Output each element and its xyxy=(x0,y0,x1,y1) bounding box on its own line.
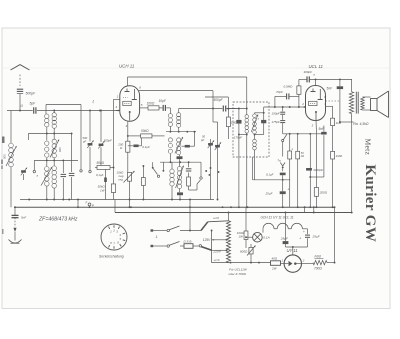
coil L9 osc xyxy=(177,109,181,132)
wire output return xyxy=(351,122,353,213)
coil L16 IF tertiary xyxy=(253,139,257,157)
svg-text:reg.: reg. xyxy=(119,178,124,182)
coil L12 xyxy=(170,162,174,200)
svg-text:7a: 7a xyxy=(277,158,281,162)
plug 7a xyxy=(277,158,285,171)
wire rectifier leads xyxy=(281,263,314,265)
wire mains to bus xyxy=(189,199,191,231)
switch S2 tone xyxy=(282,134,287,157)
resistor R3 200 xyxy=(117,141,130,152)
coil L10 xyxy=(168,138,172,162)
capacitor padder C4 xyxy=(69,133,75,200)
svg-text:2: 2 xyxy=(112,229,115,233)
IF transformer shield box xyxy=(233,102,269,157)
svg-text:1MΩ: 1MΩ xyxy=(336,154,343,158)
mains lead 1 xyxy=(151,226,202,232)
tube UCH11 pin labels xyxy=(116,86,143,128)
capacitor C26 5nF ground xyxy=(12,207,27,220)
svg-text:1W: 1W xyxy=(239,235,244,239)
antenna xyxy=(11,65,30,86)
coil L5 MW secondary xyxy=(50,134,62,161)
svg-text:500pF: 500pF xyxy=(104,138,112,142)
resistor R1 50k xyxy=(95,161,114,170)
lamp pilot 0.1A xyxy=(245,232,270,242)
svg-text:Für UCL11W: Für UCL11W xyxy=(229,267,248,271)
capacitor C27 25uF A xyxy=(280,213,302,248)
capacitor C23 300pF xyxy=(304,70,313,82)
transformer T1 primary xyxy=(349,79,353,122)
svg-text:220V: 220V xyxy=(213,249,222,253)
coil L4 MW primary xyxy=(45,134,49,161)
resistor R13 200 xyxy=(314,188,327,209)
coil L14 IF primary xyxy=(245,102,249,157)
wire mains to transformer top xyxy=(201,221,229,231)
capacitor C18 100pF xyxy=(272,107,286,116)
potentiometer R18 600 hum xyxy=(240,244,256,263)
capacitor C12 block xyxy=(182,132,195,148)
ground symbol xyxy=(9,218,22,244)
capacitor C16 IF primary tuning xyxy=(227,108,248,136)
capacitor C29 IF secondary tuning xyxy=(254,113,267,136)
field coil Feld 700 xyxy=(313,254,327,270)
svg-text:kΩ: kΩ xyxy=(301,154,304,158)
wire pin6 line xyxy=(139,91,213,109)
wire band line 1 xyxy=(28,133,71,140)
svg-text:200Ω: 200Ω xyxy=(319,190,328,194)
wire pin1 grid line xyxy=(114,98,121,100)
heater chain label xyxy=(261,216,294,220)
svg-text:500pF: 500pF xyxy=(214,98,224,102)
mains lead 2 xyxy=(151,242,185,248)
svg-text:UCH 11: UCH 11 xyxy=(119,63,135,68)
svg-text:500pF: 500pF xyxy=(26,91,37,95)
svg-text:4,5kΩ: 4,5kΩ xyxy=(360,122,369,126)
svg-text:10pF: 10pF xyxy=(159,99,167,103)
transformer T1 core xyxy=(356,92,358,114)
svg-text:Metz: Metz xyxy=(363,138,372,155)
wire 7a tie line xyxy=(253,157,291,181)
wire plate line UCL xyxy=(299,78,352,80)
resistor R16 DSB xyxy=(184,239,194,248)
svg-text:0,1µF: 0,1µF xyxy=(96,173,104,177)
wire main input line xyxy=(7,110,120,112)
selector blade 220V xyxy=(201,247,222,254)
capacitor C20 block xyxy=(266,172,286,191)
page edge marks xyxy=(1,137,5,235)
svg-text:125V: 125V xyxy=(203,238,211,242)
svg-text:Sockelschaltung: Sockelschaltung xyxy=(99,255,124,259)
socket label Sockelschaltung xyxy=(99,255,124,259)
svg-text:ω=b: ω=b xyxy=(214,258,220,262)
wire grid arrow UCL xyxy=(303,106,306,108)
svg-text:ZF=468/473 kHz: ZF=468/473 kHz xyxy=(38,217,78,223)
wire osc mid line xyxy=(166,131,196,133)
switch contact S1b xyxy=(162,162,164,172)
voltage selector contact xyxy=(193,245,202,247)
svg-text:700Ω: 700Ω xyxy=(314,266,322,270)
resistor R14 1k xyxy=(331,118,342,151)
svg-text:0,1A: 0,1A xyxy=(263,236,269,240)
svg-text:4000pF: 4000pF xyxy=(313,168,323,172)
wire bus links xyxy=(304,206,315,212)
wire detector pickup xyxy=(263,107,265,114)
svg-text:300pF: 300pF xyxy=(304,70,313,74)
svg-text:650: 650 xyxy=(58,147,62,152)
svg-text:25µF: 25µF xyxy=(265,192,273,196)
resistor R15 1M xyxy=(331,151,343,208)
capacitor C5 xyxy=(61,160,67,199)
capacitor C21 25uF xyxy=(265,188,290,209)
tube UCL11 xyxy=(306,79,326,120)
resistor R7 osc xyxy=(187,173,201,191)
brand Metz xyxy=(363,138,372,155)
svg-text:2: 2 xyxy=(301,102,304,106)
svg-text:2: 2 xyxy=(302,259,305,263)
tube UCL11 pin labels xyxy=(301,73,327,128)
label winding bottom xyxy=(214,258,220,262)
wire band section bottom xyxy=(20,199,214,201)
svg-text:1kΩ: 1kΩ xyxy=(336,121,342,125)
tube UCH11 label xyxy=(119,63,135,68)
svg-text:D.S.B.: D.S.B. xyxy=(184,239,193,243)
capacitor C9 cathode bypass xyxy=(128,138,150,149)
label winding top xyxy=(213,216,219,220)
svg-text:oder Z-700Ω: oder Z-700Ω xyxy=(229,272,247,276)
wire rectifier top tie xyxy=(286,246,308,255)
coil L15 IF secondary xyxy=(251,113,258,140)
capacitor C15 block xyxy=(177,192,183,200)
tap line 220V xyxy=(212,249,228,251)
resistor R12 50k xyxy=(296,134,304,208)
wire cathode to pot xyxy=(127,152,129,172)
resistor R19 40 2W xyxy=(271,256,281,270)
wire Ra line xyxy=(339,121,369,126)
svg-text:F: F xyxy=(86,201,88,205)
socket diagram xyxy=(101,224,127,250)
bus ground main xyxy=(14,206,335,208)
wire osc line 3 xyxy=(160,161,202,179)
resistor R8 xyxy=(142,165,146,200)
trimmer C6 500pF xyxy=(82,110,94,173)
svg-text:500: 500 xyxy=(3,154,7,159)
svg-text:UCH 11 UY 11 UCL 11: UCH 11 UY 11 UCL 11 xyxy=(261,216,294,220)
capacitor C22 4000pF xyxy=(306,134,323,208)
node U on aerial line xyxy=(19,104,23,111)
wire trimmer column A xyxy=(200,135,214,200)
svg-text:600Ω: 600Ω xyxy=(240,249,248,253)
tube UY11 label xyxy=(287,248,298,253)
potentiometer R4 10k volume xyxy=(117,171,135,209)
resistor R6 100 pin5 xyxy=(140,101,163,110)
svg-text:pF: pF xyxy=(200,138,205,142)
coil L13 xyxy=(176,162,184,192)
resistor R5 50k osc grid xyxy=(128,129,165,138)
coil L2 antenna primary xyxy=(45,114,49,134)
svg-text:0,1µF: 0,1µF xyxy=(142,145,150,149)
wire bottom tie xyxy=(77,200,79,209)
wire K dashed xyxy=(326,100,340,102)
transformer T1 secondary xyxy=(361,97,371,110)
svg-text:100pF: 100pF xyxy=(272,112,280,116)
transformer T2 left line xyxy=(211,230,229,263)
wire grid return xyxy=(113,99,115,184)
bus heater return xyxy=(115,200,352,214)
capacitor C14 padding xyxy=(186,162,192,171)
wire tuning stub b xyxy=(80,99,95,172)
svg-text:+: + xyxy=(288,188,290,192)
svg-text:70pF: 70pF xyxy=(276,90,283,94)
svg-text:50kΩ: 50kΩ xyxy=(97,161,105,165)
svg-text:pF: pF xyxy=(82,140,87,144)
capacitor C11 500pF xyxy=(214,98,238,112)
svg-text:175pF: 175pF xyxy=(272,120,280,124)
wire tone line xyxy=(283,133,324,135)
svg-text:50kΩ: 50kΩ xyxy=(141,129,149,133)
wire B+ riser xyxy=(327,207,335,263)
transformer T2 dropper xyxy=(227,213,231,263)
label mains xyxy=(156,235,159,239)
wire osc feedback column xyxy=(213,109,218,142)
svg-text:UY 11: UY 11 xyxy=(287,248,298,253)
wire detector line xyxy=(264,106,306,108)
speaker xyxy=(371,91,389,118)
svg-text:0,5MΩ: 0,5MΩ xyxy=(284,85,294,89)
resistor R10 0.5M xyxy=(284,79,301,107)
svg-text:ω=0: ω=0 xyxy=(213,216,219,220)
wire plate line H4 xyxy=(128,77,247,102)
trimmer C7 500pF xyxy=(98,110,112,166)
capacitor C8 0.1uF xyxy=(96,170,107,200)
tube UCL11 label xyxy=(309,64,324,69)
heater chain xyxy=(263,223,308,232)
capacitor C10 10pF xyxy=(159,99,171,111)
svg-text:Feld: Feld xyxy=(315,254,321,258)
trimmer wavetrap xyxy=(21,168,27,180)
terminal P xyxy=(86,201,95,208)
coil L7 LW secondary xyxy=(52,160,57,199)
wire screen lead xyxy=(326,106,333,118)
capacitor C17 70pF xyxy=(275,90,299,107)
coil L3 antenna secondary xyxy=(52,110,56,134)
coil L8 osc xyxy=(168,108,172,132)
svg-text:Ra: Ra xyxy=(353,122,358,126)
coil L6 LW primary xyxy=(41,160,52,199)
wire band line 2 xyxy=(34,159,78,161)
wire IF box exits xyxy=(238,134,255,209)
capacitor 5pF series xyxy=(30,102,37,114)
wire coupling loop top xyxy=(46,105,81,142)
switch contacts small xyxy=(205,170,219,176)
switch contact band a xyxy=(33,160,38,177)
svg-text:5nF: 5nF xyxy=(21,216,26,220)
capacitor C24 5nF plate xyxy=(327,79,344,122)
wire grid arrow xyxy=(116,110,120,112)
tube UY11 xyxy=(282,255,305,272)
svg-text:25µF: 25µF xyxy=(280,236,289,240)
tap line 125V xyxy=(203,238,228,242)
wire cathode UCL xyxy=(315,121,317,188)
switch contact S1a xyxy=(152,162,160,177)
capacitor C13 block xyxy=(177,155,183,163)
wire plate top lead xyxy=(127,77,129,86)
svg-text:1.: 1. xyxy=(156,235,159,239)
svg-text:Kurier GW: Kurier GW xyxy=(362,164,378,242)
wire osc top line xyxy=(179,108,223,110)
resistor R9 1M xyxy=(205,97,238,139)
scan fold line xyxy=(2,67,390,69)
resistor R17 heater series xyxy=(237,207,248,248)
capacitor 500pF antenna xyxy=(17,89,36,110)
capacitor C25 5nF xyxy=(319,126,327,135)
tube UCH11 xyxy=(120,86,140,121)
coil L1 wavetrap xyxy=(3,111,17,208)
svg-text:+: + xyxy=(299,236,301,240)
svg-text:0,1µF: 0,1µF xyxy=(266,172,274,176)
svg-text:100Ω: 100Ω xyxy=(147,101,155,105)
svg-text:5pF: 5pF xyxy=(30,102,37,106)
wire AVC feed xyxy=(99,110,101,112)
title Kurier GW xyxy=(362,164,378,242)
wire cathode lead xyxy=(127,121,129,141)
capacitor C19 175pF xyxy=(272,115,286,134)
trimmer column B xyxy=(215,141,221,200)
coil L11 xyxy=(175,137,183,155)
svg-text:40Ω: 40Ω xyxy=(272,256,278,260)
svg-text:UCL 11: UCL 11 xyxy=(309,64,324,69)
svg-text:25µF: 25µF xyxy=(312,234,321,238)
wire tone tie xyxy=(310,135,324,177)
IF label 175pF xyxy=(234,117,260,139)
capacitor C28 25uF B xyxy=(303,229,321,247)
svg-text:+: + xyxy=(303,230,305,234)
wire rectifier line xyxy=(229,262,271,264)
label barretter type xyxy=(229,267,248,276)
label IF frequency xyxy=(38,217,78,223)
svg-text:P: P xyxy=(92,204,94,208)
resistor R2 30k 1W xyxy=(98,184,116,200)
resistor R11 xyxy=(288,134,294,207)
svg-text:175pF: 175pF xyxy=(234,135,242,139)
